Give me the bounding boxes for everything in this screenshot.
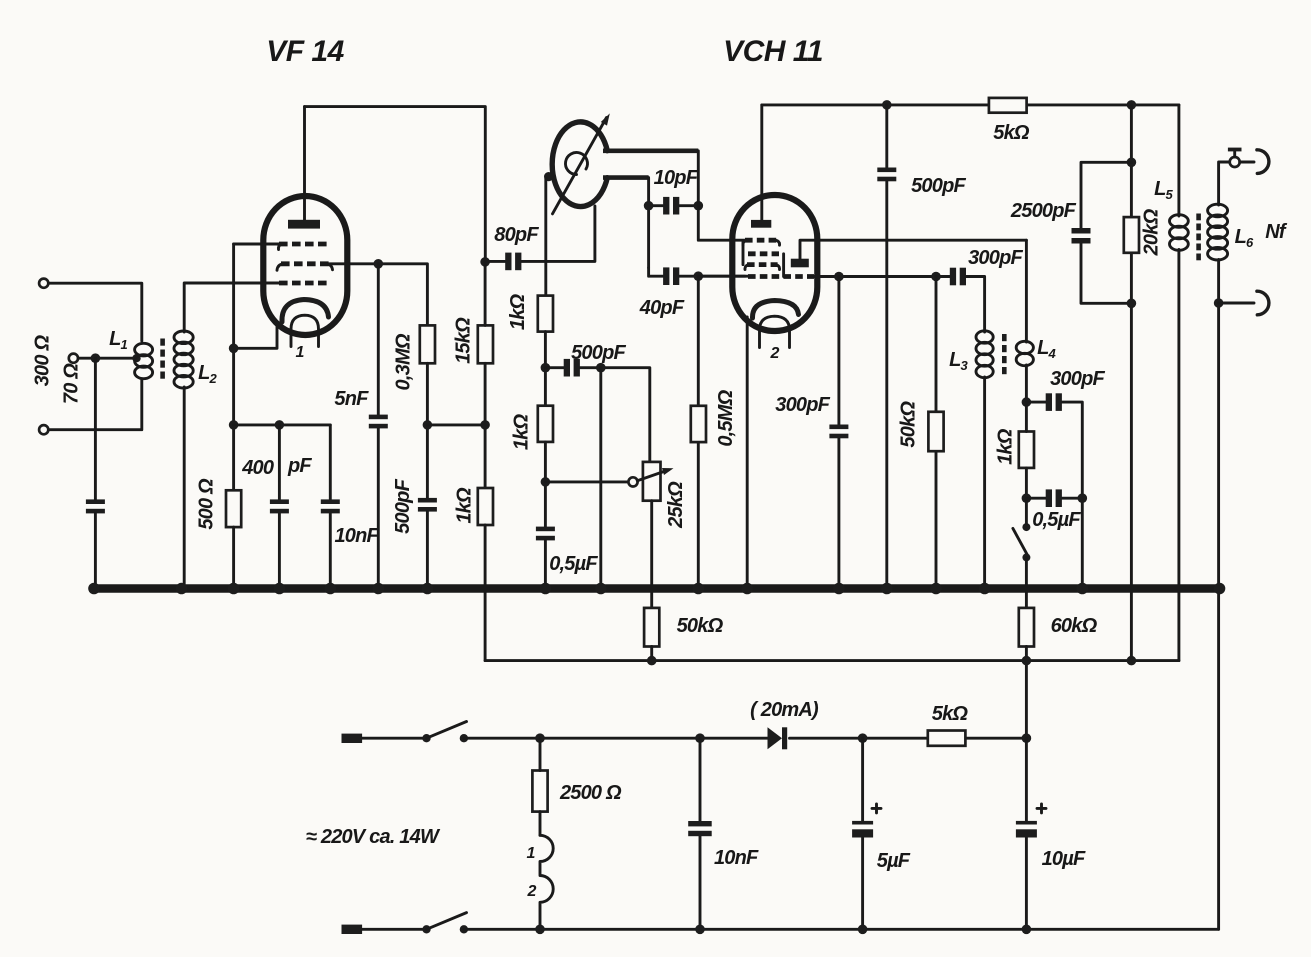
- wire 600 column to bus: [599, 368, 602, 589]
- svg-text:VCH 11: VCH 11: [723, 35, 823, 68]
- node L4 bottom junction: [1022, 397, 1032, 407]
- wire rail to 2500Ω: [539, 738, 542, 770]
- switch mains top contact b: [460, 734, 468, 742]
- svg-text:1kΩ: 1kΩ: [994, 428, 1016, 465]
- capacitor 500pF shunt: [418, 498, 437, 512]
- resistor 50kΩ: [928, 412, 943, 451]
- wire 5µF leads: [861, 738, 864, 929]
- svg-text:10nF: 10nF: [334, 525, 379, 547]
- node 20kΩ top junction: [1127, 100, 1137, 110]
- wire tip to jack: [1240, 161, 1254, 164]
- wire 500Ω to bus: [232, 527, 235, 588]
- node L1 tap blob: [132, 354, 140, 362]
- node 15k-1k junction: [480, 420, 490, 430]
- wire tap node down to antenna capacitor: [94, 358, 97, 499]
- wire L4 bottom to junction: [1025, 365, 1028, 402]
- svg-text:10µF: 10µF: [1042, 848, 1086, 870]
- resistor 2500Ω dropper: [532, 771, 547, 812]
- tube V1 grid row 2 end hooks: [277, 264, 333, 271]
- tube V2 row A hooks: [743, 240, 780, 245]
- svg-text:25kΩ: 25kΩ: [665, 481, 687, 529]
- resistor 1kΩ cathode V2: [478, 488, 493, 525]
- inductor L6: [1208, 204, 1228, 260]
- wire B+ feed line below bus: [485, 659, 1179, 662]
- tube V2 grid row D dashes: [748, 274, 814, 279]
- switch mains bottom contact a: [422, 925, 430, 933]
- wire L6 bottom: [1217, 260, 1220, 930]
- inductor L4: [1016, 341, 1033, 365]
- tube V2 anode 1 plate: [751, 220, 771, 228]
- node rail 2500Ω: [535, 733, 545, 743]
- tube V2 top cap wire: [760, 105, 763, 220]
- tube V2 anode 2 plate: [791, 259, 809, 268]
- wire L5 column: [1177, 105, 1180, 661]
- resistor 50kΩ feed left: [644, 608, 659, 647]
- svg-text:5nF: 5nF: [334, 388, 369, 410]
- wire switch through bus to 60kΩ: [1025, 557, 1028, 608]
- switch regen contact bottom: [1022, 553, 1030, 561]
- node row D 300pF junction: [834, 272, 844, 282]
- capacitor 400pF-a: [270, 499, 289, 513]
- svg-text:10pF: 10pF: [654, 167, 699, 189]
- svg-text:2500pF: 2500pF: [1010, 200, 1077, 222]
- wire V2 anode top line: [762, 103, 1179, 106]
- resistor 500Ω: [226, 490, 241, 527]
- variable capacitor tuning C rotor circle: [552, 122, 607, 207]
- svg-text:300pF: 300pF: [968, 247, 1023, 269]
- capacitor 5nF: [369, 415, 388, 429]
- tube V1 VF14 envelope: [263, 196, 347, 335]
- node feed 50kΩ: [647, 656, 657, 666]
- tube V1 anode plate: [288, 220, 320, 229]
- tube V1 heater dome and pins: [291, 315, 319, 346]
- wire 300pF feedback line: [1026, 402, 1082, 588]
- wire 500pF anode bypass leads: [885, 105, 888, 589]
- svg-text:5kΩ: 5kΩ: [932, 703, 969, 725]
- resistor 1kΩ lower: [538, 406, 553, 442]
- wire bottom rail: [464, 928, 1219, 931]
- switch mains top lever: [427, 722, 467, 739]
- wire L6 top to phone tip: [1219, 162, 1230, 205]
- capacitor 300pF series feedback: [1046, 393, 1062, 411]
- wire 0,5µF-b line: [1026, 497, 1082, 500]
- capacitor 40pF: [663, 267, 679, 285]
- wire 10nF leads: [699, 738, 702, 929]
- svg-text:50kΩ: 50kΩ: [898, 401, 920, 448]
- tube V2 VCH11 envelope: [732, 195, 817, 331]
- wire to switch: [1025, 498, 1028, 524]
- svg-text:500pF: 500pF: [571, 342, 626, 364]
- node riser 400pF junction: [229, 420, 239, 430]
- wire V2 cathode line to bus: [746, 317, 749, 589]
- capacitor antenna coupling (unlabeled): [86, 499, 105, 513]
- wire wiper line to pot: [545, 480, 628, 483]
- wire anode2 line down to L4: [1025, 240, 1028, 342]
- phone tip bar: [1228, 148, 1242, 152]
- node 40pF right junction: [694, 271, 704, 281]
- capacitor 2500pF: [1072, 228, 1091, 244]
- wire L2 bottom to bus: [183, 387, 186, 589]
- wire top bracket V1 anode feed: [305, 107, 486, 262]
- switch regen lever: [1013, 528, 1028, 555]
- svg-text:80pF: 80pF: [494, 224, 539, 246]
- wire V1 grid1 to left riser: [234, 243, 279, 246]
- tube V1 grid row 1 dashes: [279, 242, 327, 247]
- potentiometer 25kΩ: [643, 462, 661, 501]
- svg-text:2: 2: [770, 345, 780, 362]
- inductor L3: [976, 331, 993, 378]
- inductor L1: [135, 343, 153, 378]
- wire 0,5µF to bus: [544, 540, 547, 588]
- ground bus: [94, 584, 1220, 593]
- tube V2 jog row B to row D: [782, 254, 785, 277]
- node bus dots: [88, 583, 1225, 595]
- ballast coil taps 1-2: [540, 835, 553, 929]
- svg-text:50kΩ: 50kΩ: [677, 615, 724, 637]
- resistor 1kΩ osc grid upper: [538, 296, 553, 332]
- svg-text:5µF: 5µF: [877, 850, 911, 872]
- tube V1 grid row 2 dashes: [281, 261, 329, 266]
- svg-text:300 Ω: 300 Ω: [32, 335, 54, 387]
- svg-text:( 20mA): ( 20mA): [750, 699, 819, 721]
- wire 10pF line: [649, 178, 699, 268]
- tube V1 top cap wire: [303, 107, 306, 220]
- wire 10µF leads: [1025, 738, 1028, 929]
- node bottom rail dots: [535, 925, 1031, 935]
- tube V1 cathode arc: [282, 300, 329, 323]
- node 2500pF bottom junction: [1127, 299, 1137, 309]
- svg-text:70 Ω: 70 Ω: [61, 363, 83, 404]
- wire 1kΩ down through bus to feed line: [484, 525, 487, 661]
- wire 50kΩ to feed line: [650, 647, 653, 661]
- wire 80pF line: [485, 206, 595, 261]
- headphone jack arc top: [1257, 150, 1269, 174]
- mains plug stub top: [342, 734, 363, 743]
- wire L3 bottom to bus: [983, 377, 986, 589]
- plus sign 10µF: [1037, 804, 1046, 813]
- antenna terminal bottom: [39, 425, 48, 434]
- capacitor 5µF electrolytic: [852, 821, 873, 838]
- arrowhead tuning: [601, 113, 610, 125]
- capacitor 0,5µF left: [536, 527, 555, 541]
- variable capacitor inner rotor loop: [565, 153, 587, 175]
- svg-text:40pF: 40pF: [639, 297, 685, 319]
- node junction antenna tap: [91, 353, 101, 363]
- switch mains bottom lever: [427, 913, 467, 930]
- wire jack bottom lead: [1219, 302, 1254, 305]
- inductor L5: [1170, 215, 1189, 251]
- wire 60kΩ down to rail: [1025, 647, 1028, 739]
- variable capacitor top plate lead: [603, 149, 698, 154]
- pot wiper terminal circle: [628, 477, 637, 486]
- svg-text:2: 2: [527, 883, 537, 900]
- phone tip stem and bar: [1233, 152, 1236, 158]
- capacitor 500pF series: [564, 359, 580, 377]
- core L5/L6 dashed: [1196, 214, 1201, 261]
- wire 1kΩ lower to 0,5µF: [544, 442, 547, 527]
- node 80pF line start: [480, 257, 490, 267]
- wire tuning cap left tap down to 1kΩ: [544, 179, 547, 296]
- wire L2 top to tube V1 grid3: [184, 283, 279, 332]
- svg-text:15kΩ: 15kΩ: [453, 317, 475, 364]
- svg-text:10nF: 10nF: [714, 847, 759, 869]
- resistor 5kΩ filter: [928, 731, 966, 746]
- wire 300pF shunt leads: [837, 277, 840, 589]
- capacitor 80pF: [505, 253, 521, 271]
- wire top terminal to L1 top: [49, 283, 142, 341]
- tube V2 cathode arc: [752, 301, 798, 319]
- resistor 5kΩ anode: [989, 98, 1027, 113]
- wire 5nF leads: [377, 264, 380, 589]
- svg-text:Nf: Nf: [1265, 221, 1288, 243]
- svg-text:1kΩ: 1kΩ: [510, 413, 532, 450]
- wire 300pF to L3: [966, 277, 985, 333]
- wire 40pF line: [649, 268, 745, 277]
- resistor 60kΩ: [1019, 608, 1034, 647]
- wire row D through tube: [698, 275, 949, 278]
- plus sign 5µF: [872, 804, 881, 813]
- wire 500pF to bus: [426, 512, 429, 589]
- capacitor 300pF shunt: [829, 425, 848, 439]
- node rail 10µF: [1022, 733, 1032, 743]
- wire mid terminal to L1 tap: [78, 357, 136, 360]
- svg-text:pF: pF: [287, 455, 312, 477]
- node 0,3M-500pF junction: [423, 420, 433, 430]
- svg-text:≈ 220V ca. 14W: ≈ 220V ca. 14W: [306, 826, 441, 848]
- capacitor 300pF series to L3: [950, 268, 966, 286]
- svg-text:20kΩ: 20kΩ: [1141, 208, 1163, 256]
- capacitor 10nF mains: [688, 821, 712, 836]
- wire top rail left: [362, 737, 422, 740]
- switch mains bottom contact b: [460, 925, 468, 933]
- node 1082 wiper junction: [1078, 493, 1088, 503]
- node wiper line junction: [541, 477, 551, 487]
- svg-text:1: 1: [296, 344, 305, 361]
- node 600 column junction: [596, 363, 606, 373]
- svg-text:300pF: 300pF: [775, 394, 830, 416]
- node tuning cap left tap: [544, 172, 553, 181]
- capacitor 0,5µF right: [1046, 489, 1062, 507]
- node 2500pF top junction: [1127, 158, 1137, 168]
- node row D 50kΩ junction: [931, 272, 941, 282]
- node feed 20kΩ line: [1127, 656, 1137, 666]
- svg-text:1kΩ: 1kΩ: [507, 293, 529, 330]
- svg-text:500pF: 500pF: [392, 478, 414, 533]
- capacitor 500pF anode bypass: [877, 168, 896, 182]
- core L1/L2 dashed: [160, 339, 165, 379]
- svg-text:500 Ω: 500 Ω: [195, 478, 217, 530]
- node grid2 5nF junction: [374, 259, 384, 269]
- svg-text:0,5µF: 0,5µF: [549, 553, 598, 575]
- node riser-cathode junction: [229, 344, 239, 354]
- wire 50kΩ leads: [935, 277, 938, 589]
- variable capacitor adjust arrow: [553, 118, 607, 214]
- wire 1kΩ leads: [1025, 402, 1028, 498]
- variable capacitor lower plate lead: [603, 175, 649, 180]
- pot arrow: [637, 470, 668, 481]
- svg-text:0,5MΩ: 0,5MΩ: [715, 389, 737, 446]
- wire 0,3MΩ to 500pF: [426, 363, 429, 498]
- svg-text:1kΩ: 1kΩ: [454, 487, 476, 524]
- wire 0,5MΩ column: [697, 276, 700, 588]
- node rail 10nF: [695, 733, 705, 743]
- tube V2 grid row B dashes: [748, 251, 779, 256]
- resistor 15kΩ: [478, 325, 493, 363]
- node 500pF line junction: [541, 363, 551, 373]
- wire bottom rail left: [362, 928, 422, 931]
- node 400pF-a junction: [275, 420, 285, 430]
- resistor 20kΩ: [1124, 217, 1139, 253]
- wire grid riser V2: [698, 151, 745, 240]
- svg-text:400: 400: [241, 457, 274, 479]
- wire antenna capacitor to bus: [94, 513, 97, 588]
- wire V1 grid2 output line: [329, 264, 428, 326]
- wire 400pF-a leads: [278, 425, 281, 589]
- svg-text:0,5µF: 0,5µF: [1032, 509, 1081, 531]
- wire pot bottom through bus to 50kΩ: [650, 501, 653, 608]
- mains plug stub bottom: [342, 925, 363, 934]
- tube V2 inner jog grids A-C: [742, 242, 745, 265]
- phone tip circle: [1230, 157, 1240, 167]
- svg-text:60kΩ: 60kΩ: [1051, 615, 1098, 637]
- wire top rail: [464, 737, 1027, 740]
- wire 500pF series line: [545, 368, 649, 462]
- svg-text:VF 14: VF 14: [266, 35, 344, 68]
- inductor L2: [174, 331, 193, 388]
- wire link 427-485: [427, 423, 485, 426]
- tube V2 grid row A dashes: [745, 238, 778, 243]
- node feed 60kΩ: [1022, 656, 1032, 666]
- node 0,5µF-b junction: [1022, 493, 1032, 503]
- capacitor 10µF electrolytic: [1016, 821, 1037, 838]
- wire 15kΩ column: [484, 262, 487, 488]
- node 10pF right: [694, 201, 704, 211]
- resistor 1kΩ regen: [1019, 432, 1034, 468]
- resistor 0,5MΩ: [691, 406, 706, 442]
- core L3/L4 dashed: [1002, 334, 1007, 374]
- tube V2 grid row C dashes: [747, 262, 778, 267]
- wire 400pF row: [234, 423, 331, 426]
- wire left riser g1/cathode column: [232, 244, 235, 490]
- node 10pF left: [644, 201, 654, 211]
- pot arrowhead: [662, 468, 674, 475]
- diode rectifier triangle: [768, 727, 783, 749]
- antenna terminal 70R mid: [69, 354, 78, 363]
- antenna terminal 300R top: [39, 279, 48, 288]
- capacitor 400pF-b: [321, 499, 340, 513]
- node L6 bottom junction: [1214, 298, 1224, 308]
- svg-text:0,3MΩ: 0,3MΩ: [393, 333, 415, 390]
- switch mains top contact a: [422, 734, 430, 742]
- wire between 1kΩ resistors: [544, 332, 547, 406]
- svg-text:1: 1: [527, 845, 536, 862]
- tube V2 anode 2 riser: [800, 240, 1026, 259]
- node rail 5µF: [858, 733, 868, 743]
- switch regen contact top: [1022, 523, 1030, 531]
- svg-text:300pF: 300pF: [1050, 368, 1105, 390]
- tube V2 row C hooks: [745, 265, 780, 270]
- wire 2500pF bracket: [1081, 162, 1131, 303]
- svg-text:5kΩ: 5kΩ: [993, 122, 1030, 144]
- diode rectifier bar: [782, 727, 787, 749]
- wire L1 bottom to bottom terminal: [49, 380, 142, 430]
- tube V2 heater dome and pins: [760, 316, 790, 347]
- node 500pF top junction: [882, 100, 892, 110]
- headphone jack arc bottom: [1257, 291, 1269, 315]
- tube V1 grid row 3 dashes: [279, 281, 327, 286]
- svg-text:500pF: 500pF: [911, 175, 966, 197]
- wire 20kΩ column: [1130, 105, 1133, 661]
- resistor 0,3MΩ: [420, 325, 435, 363]
- wire V1 cathode jog to riser: [234, 322, 277, 348]
- capacitor 10pF: [663, 197, 679, 215]
- wire 2500Ω to ballast: [539, 812, 542, 836]
- wire 400pF-b leads: [329, 425, 332, 589]
- svg-text:2500 Ω: 2500 Ω: [559, 782, 622, 804]
- tube V1 grid row 1 left hook: [278, 244, 281, 250]
